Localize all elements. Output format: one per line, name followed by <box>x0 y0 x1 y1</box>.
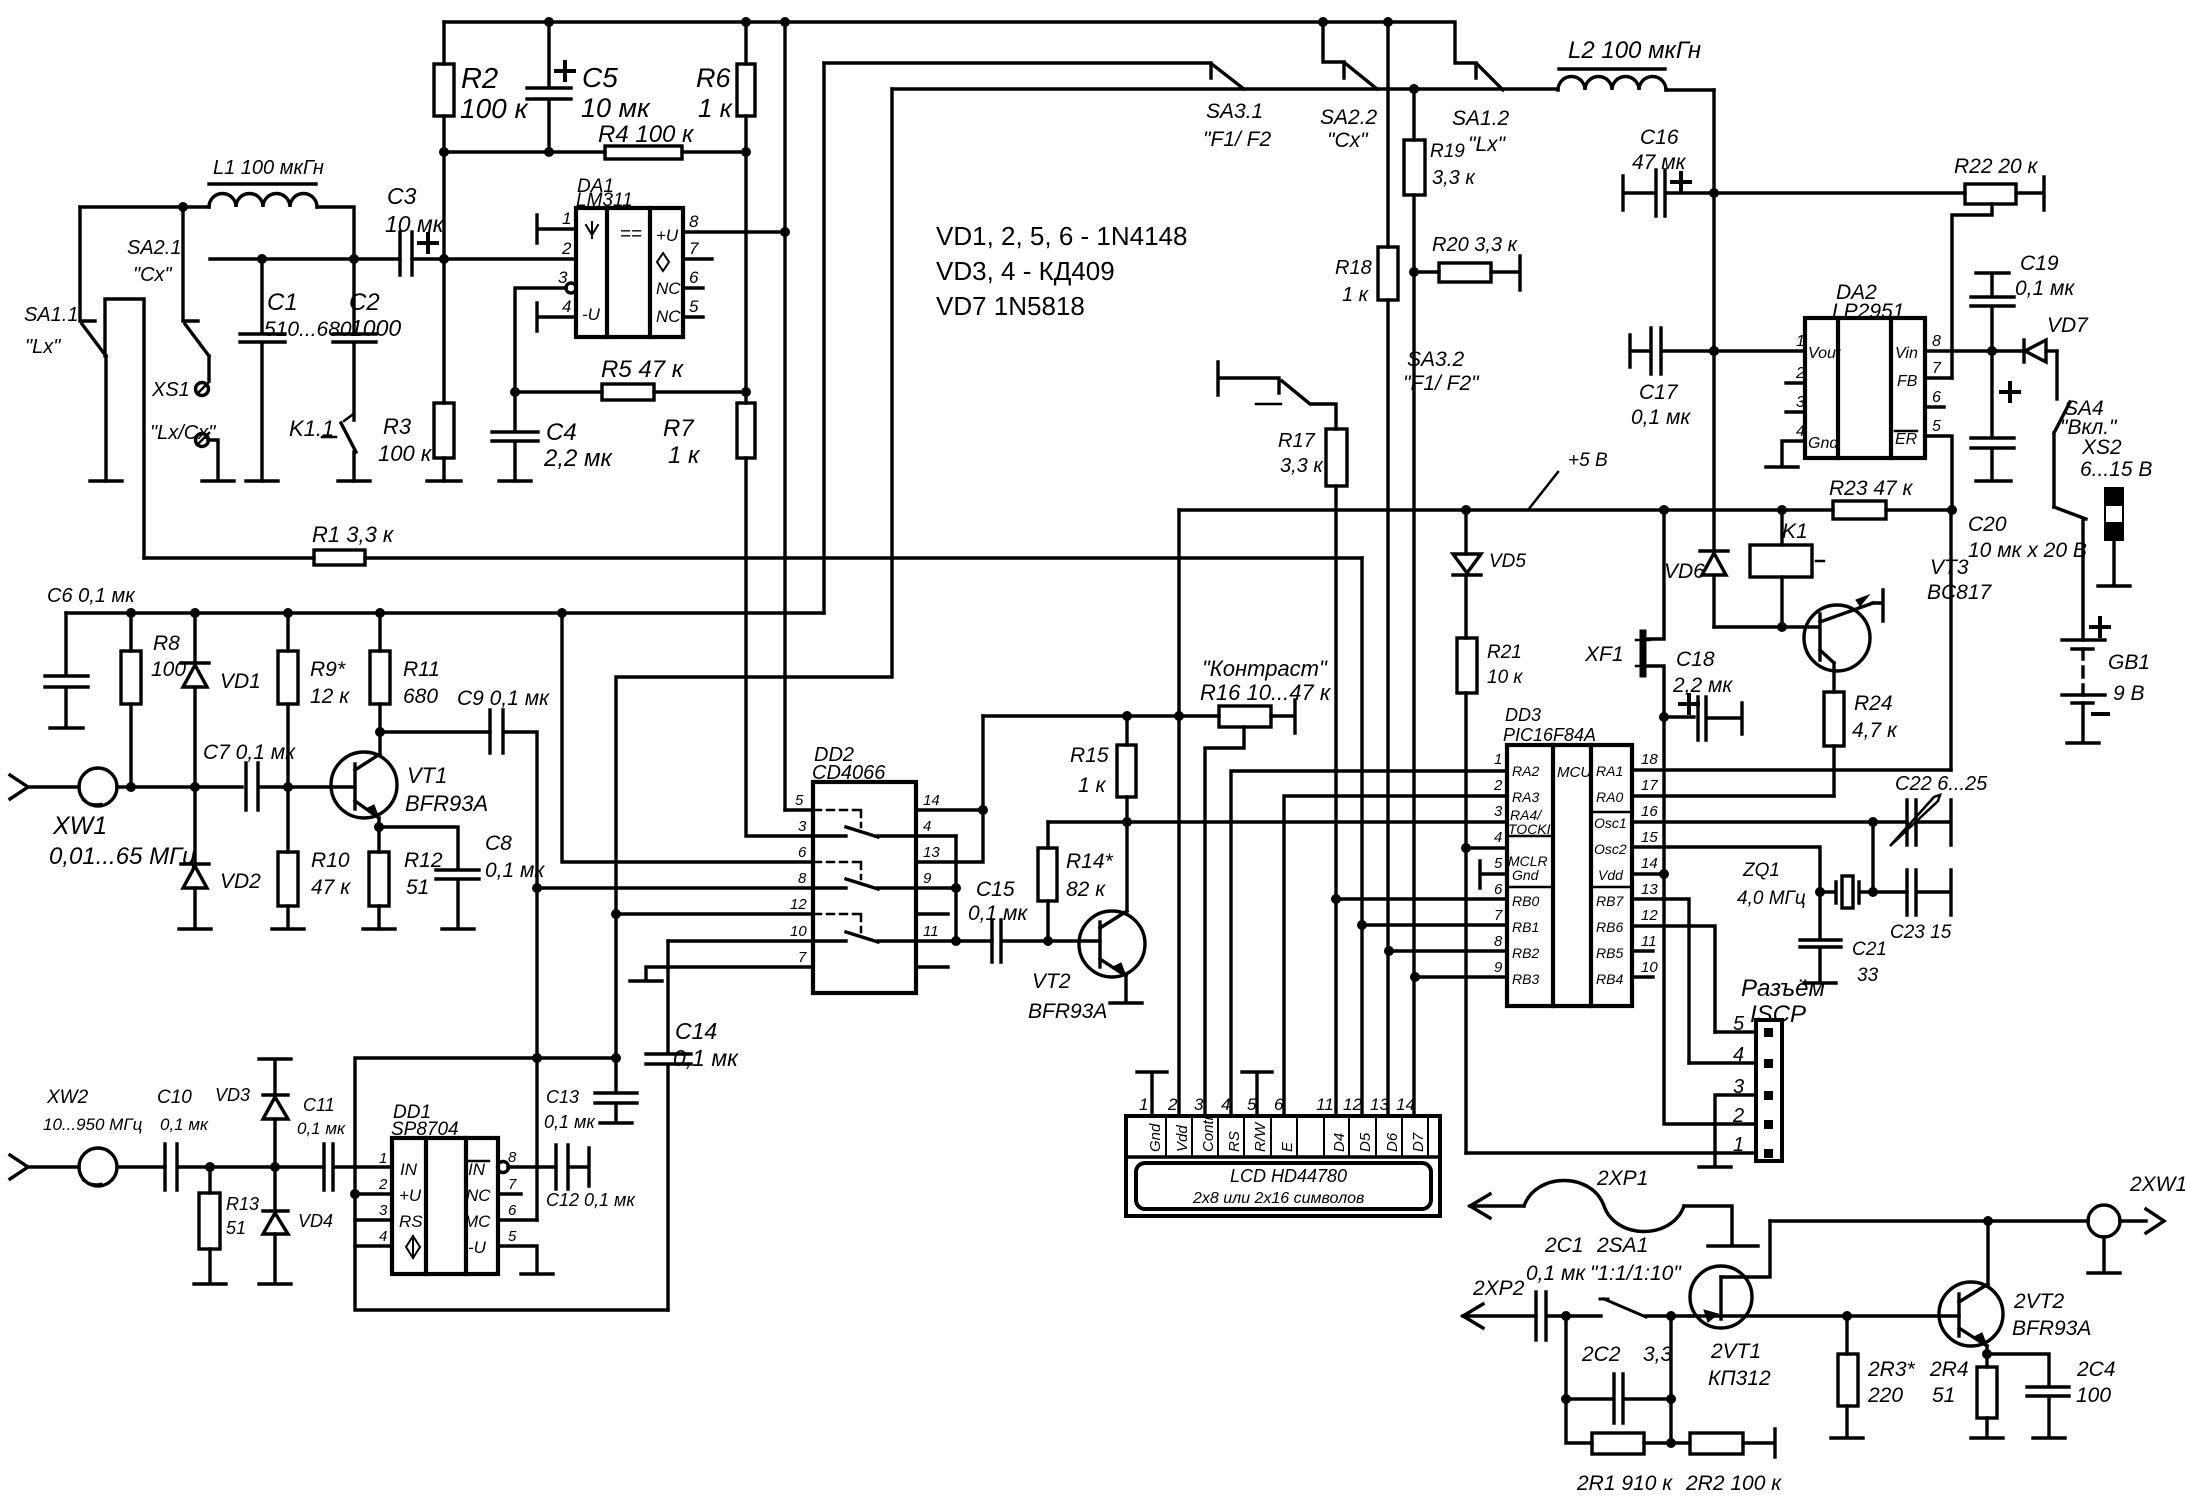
svg-text:C11: C11 <box>303 1095 335 1115</box>
svg-text:4: 4 <box>923 818 931 835</box>
wire SA1.2 arm <box>1477 64 1503 90</box>
svg-text:6: 6 <box>689 268 699 287</box>
svg-text:E: E <box>1279 1141 1296 1152</box>
svg-text:1: 1 <box>1494 751 1502 768</box>
svg-text:SA1.2: SA1.2 <box>1452 107 1510 130</box>
svg-text:0,1 мк: 0,1 мк <box>2015 277 2075 300</box>
capacitor C19 <box>1971 273 2014 351</box>
svg-text:0,1 мк: 0,1 мк <box>1526 1262 1586 1285</box>
inductor L2 <box>1559 67 1665 70</box>
svg-text:12: 12 <box>790 896 807 913</box>
svg-text:VD4: VD4 <box>298 1211 333 1231</box>
resistor R5 <box>515 390 746 393</box>
svg-text:C2: C2 <box>349 289 380 316</box>
svg-text:9: 9 <box>923 870 932 887</box>
battery GB1 <box>2081 521 2084 640</box>
svg-text:VD7 1N5818: VD7 1N5818 <box>936 291 1085 321</box>
svg-text:3: 3 <box>1733 1076 1744 1098</box>
svg-text:6: 6 <box>1932 389 1941 406</box>
svg-text:SA2.2: SA2.2 <box>1320 106 1378 129</box>
wire R7 down to DD2 pin3 <box>746 458 813 836</box>
wire top supply bus <box>444 22 1476 78</box>
svg-text:R17: R17 <box>1278 430 1316 452</box>
svg-text:"Контраст": "Контраст" <box>1202 656 1328 681</box>
pin 7 DD2 <box>630 967 813 981</box>
switch SA2.2 <box>1323 22 1344 78</box>
svg-text:SA3.1: SA3.1 <box>1206 100 1263 123</box>
svg-text:C18: C18 <box>1676 648 1715 671</box>
svg-text:47 мк: 47 мк <box>1632 151 1687 174</box>
MCU DD3 PIC16F84A <box>1507 745 1632 1006</box>
svg-text:RS: RS <box>399 1212 423 1231</box>
svg-text:C1: C1 <box>267 289 298 316</box>
svg-text:C10: C10 <box>157 1087 192 1108</box>
pin 1 DA1 <box>537 215 576 243</box>
node R4 junctions <box>439 147 751 157</box>
DD2 internal switch 2 <box>814 862 861 879</box>
switch SA2.1 <box>183 207 198 321</box>
switch SA3.1 <box>1213 65 1244 89</box>
svg-text:"Lx": "Lx" <box>1468 133 1507 156</box>
wire R19 node down to LCD D7 <box>1412 272 1415 1116</box>
svg-text:3: 3 <box>1494 803 1503 820</box>
resistor R12 <box>377 827 380 929</box>
svg-text:CD4066: CD4066 <box>812 762 886 784</box>
svg-text:10 мк x 20 В: 10 мк x 20 В <box>1968 539 2087 562</box>
wire C18 node to Vdd <box>1662 717 1665 874</box>
svg-text:VD6: VD6 <box>1664 560 1705 583</box>
svg-text:5: 5 <box>1494 855 1503 872</box>
wire unregulated rail L2 down <box>1712 90 1715 551</box>
switch SA4 <box>2055 351 2058 399</box>
svg-text:VD5: VD5 <box>1489 551 1526 572</box>
svg-text:Contr: Contr <box>1200 1114 1217 1152</box>
wire RA3 line E <box>1284 796 1507 1116</box>
LCD pin names rotated <box>1147 1114 1427 1152</box>
capacitor C5 <box>527 22 571 152</box>
wire R2 bottom to C3 node <box>442 152 445 259</box>
svg-text:5: 5 <box>689 297 699 316</box>
pin 5 DD2 <box>785 808 813 811</box>
svg-text:2C1: 2C1 <box>1544 1234 1584 1257</box>
svg-text:R14*: R14* <box>1066 850 1114 873</box>
svg-text:2XW1: 2XW1 <box>2129 1173 2185 1196</box>
capacitor 2C2 <box>1566 1316 1671 1423</box>
svg-text:LP2951: LP2951 <box>1832 300 1904 323</box>
switch 2SA1 <box>1600 1299 1646 1317</box>
wire RB2 line D6 <box>1389 949 1507 952</box>
svg-text:3: 3 <box>1194 1095 1204 1114</box>
svg-text:SA2.1: SA2.1 <box>127 237 181 259</box>
wire LCD Vdd vertical <box>1177 510 1180 1116</box>
connector 2XW1 <box>2088 1205 2120 1237</box>
svg-text:C15: C15 <box>976 878 1015 901</box>
svg-text:C19: C19 <box>2020 252 2059 275</box>
resistor R9 <box>286 613 289 787</box>
resistor R20 <box>1414 256 1520 290</box>
connector XS2 <box>2105 488 2123 505</box>
pin 8 DD1 <box>498 1162 509 1173</box>
pin 13 DD2 <box>916 716 983 862</box>
svg-text:1: 1 <box>562 209 571 228</box>
svg-text:10...950 МГц: 10...950 МГц <box>43 1115 143 1134</box>
svg-text:R18: R18 <box>1335 257 1372 279</box>
svg-text:2SA1: 2SA1 <box>1596 1234 1648 1257</box>
ground R3 <box>427 479 461 482</box>
svg-text:R23 47 к: R23 47 к <box>1829 477 1914 500</box>
svg-text:D4: D4 <box>1331 1133 1348 1152</box>
pin 6 DA1 <box>683 286 703 289</box>
svg-text:1: 1 <box>1733 1134 1744 1156</box>
capacitor 2C1 <box>1536 1292 1601 1340</box>
pin 14 DD2 <box>916 808 983 811</box>
svg-text:R/W: R/W <box>1252 1121 1269 1152</box>
svg-text:DD3: DD3 <box>1505 705 1541 725</box>
svg-text:PIC16F84A: PIC16F84A <box>1503 725 1596 745</box>
resistor 2R4 <box>1971 1354 2003 1438</box>
svg-text:Osc1: Osc1 <box>1594 815 1627 831</box>
pin 16 DD3 Osc1 <box>1632 820 1907 823</box>
fuse XF1 <box>1646 510 1664 717</box>
svg-text:8: 8 <box>508 1149 517 1166</box>
svg-text:FB: FB <box>1897 373 1918 390</box>
svg-text:R8: R8 <box>153 632 180 655</box>
pin 7 DD1 <box>498 1192 521 1195</box>
svg-text:4: 4 <box>1733 1044 1744 1066</box>
pin 10 DD3 RB4 <box>1632 975 1653 978</box>
svg-text:ZQ1: ZQ1 <box>1742 860 1780 881</box>
svg-text:2,2 мк: 2,2 мк <box>543 445 613 472</box>
pin 8 DA1 <box>683 230 785 233</box>
pin 5 DA1 <box>683 315 703 318</box>
svg-text:0,1 мк: 0,1 мк <box>544 1112 596 1132</box>
svg-text:-U: -U <box>468 1238 487 1257</box>
svg-text:12: 12 <box>1343 1095 1362 1114</box>
capacitor C1 <box>240 259 285 481</box>
pin 7 DA1 <box>683 257 712 260</box>
pin 5 DD3 Gnd <box>1480 861 1507 888</box>
svg-text:2: 2 <box>1795 365 1805 382</box>
svg-text:GB1: GB1 <box>2108 651 2150 674</box>
connector 2XP2 <box>1463 1304 1483 1328</box>
svg-text:5: 5 <box>795 792 804 809</box>
svg-text:+5 В: +5 В <box>1568 450 1608 471</box>
pin 4 DA1 <box>537 303 576 331</box>
resistor R3 <box>442 259 445 481</box>
node VT1 collector junction <box>375 727 385 737</box>
switch SA1.1 <box>80 207 95 321</box>
svg-text:C12 0,1 мк: C12 0,1 мк <box>546 1190 636 1210</box>
wire RB0 line D4 <box>1336 897 1507 900</box>
svg-text:33: 33 <box>1857 965 1879 986</box>
wire RA4 line <box>1048 820 1507 823</box>
capacitor C6 <box>45 613 88 728</box>
svg-text:15: 15 <box>1641 829 1658 846</box>
svg-text:Osc2: Osc2 <box>1594 841 1627 857</box>
svg-text:0,1 мк: 0,1 мк <box>968 902 1028 925</box>
pin 13 DD3 RB7 <box>1632 899 1689 1063</box>
pin 7 DA2 FB <box>1925 376 1952 379</box>
svg-text:R15: R15 <box>1070 744 1109 767</box>
svg-text:C9 0,1 мк: C9 0,1 мк <box>457 687 550 710</box>
svg-text:VD2: VD2 <box>220 870 261 893</box>
pin 6 DA2 <box>1925 405 1944 408</box>
capacitor C15 <box>992 920 1100 962</box>
transistor VT3 BC817 <box>1804 605 1870 671</box>
jack XS1 <box>196 383 209 396</box>
svg-text:L2 100 мкГн: L2 100 мкГн <box>1568 37 1701 64</box>
svg-text:2R2 100 к: 2R2 100 к <box>1685 1472 1782 1495</box>
svg-text:"Lx/Cx": "Lx/Cx" <box>150 422 216 444</box>
svg-text:0,1 мк: 0,1 мк <box>160 1115 209 1134</box>
switch SA3.2 <box>1218 362 1279 395</box>
pin 3 DA1 <box>566 283 576 293</box>
wire 2SA1 node down to divider <box>1669 1316 1672 1443</box>
capacitor C18 <box>1664 697 1742 740</box>
svg-text:2: 2 <box>378 1176 388 1193</box>
svg-text:10 к: 10 к <box>1487 667 1523 688</box>
svg-text:1: 1 <box>379 1150 387 1167</box>
wire L1 right down to tank line <box>317 207 354 334</box>
relay coil K1 <box>1780 510 1783 545</box>
svg-text:7: 7 <box>798 949 807 966</box>
svg-text:3,3: 3,3 <box>1643 1343 1673 1366</box>
svg-text:10 мк: 10 мк <box>581 93 651 123</box>
svg-text:SP8704: SP8704 <box>391 1119 459 1140</box>
svg-text:100 к: 100 к <box>378 441 433 466</box>
svg-text:0,1 мк: 0,1 мк <box>673 1045 739 1071</box>
svg-text:BFR93A: BFR93A <box>1028 1000 1107 1023</box>
pin 6 DD1 <box>498 1218 537 1221</box>
resistor R6 <box>744 22 747 152</box>
svg-text:0,1 мк: 0,1 мк <box>1631 406 1691 429</box>
resistor R4 <box>444 150 746 153</box>
pin 3 ISCP <box>1699 1095 1756 1167</box>
svg-text:R20 3,3 к: R20 3,3 к <box>1432 234 1519 256</box>
svg-text:2: 2 <box>1493 777 1503 794</box>
svg-text:+U: +U <box>656 226 679 245</box>
svg-text:1000: 1000 <box>350 315 401 341</box>
svg-text:4: 4 <box>379 1228 387 1245</box>
connector 2XP1 <box>1470 1194 1490 1218</box>
quartz ZQ1 <box>1820 882 1907 903</box>
svg-text:17: 17 <box>1641 777 1658 794</box>
pin 15 DD3 Osc2 <box>1632 847 1820 892</box>
svg-text:12 к: 12 к <box>310 685 350 708</box>
svg-text:1: 1 <box>1796 333 1805 350</box>
svg-text:"1:1/1:10": "1:1/1:10" <box>1590 1262 1682 1285</box>
svg-text:BFR93A: BFR93A <box>405 791 488 816</box>
svg-text:3: 3 <box>379 1202 388 1219</box>
svg-text:C23 15: C23 15 <box>1890 922 1952 943</box>
pin 3 DD1 <box>355 1218 392 1221</box>
svg-text:5: 5 <box>1733 1013 1745 1035</box>
svg-text:8: 8 <box>1932 333 1941 350</box>
svg-text:Gnd: Gnd <box>1808 435 1839 452</box>
resistor R21 <box>1457 638 1477 693</box>
svg-text:C14: C14 <box>675 1018 717 1044</box>
svg-text:7: 7 <box>689 239 699 258</box>
capacitor C4 <box>492 392 538 481</box>
pin 10 DD2 <box>668 939 813 942</box>
svg-text:Vdd: Vdd <box>1174 1125 1191 1152</box>
DD2 right stubs <box>916 914 948 967</box>
wire R22 tap to FB <box>1952 204 1992 378</box>
resistor R2 <box>442 22 445 152</box>
svg-text:R1 3,3 к: R1 3,3 к <box>312 522 395 547</box>
svg-text:47 к: 47 к <box>311 876 351 899</box>
wire Osc1 to crystal node <box>1871 822 1874 892</box>
svg-text:VD3, 4 - КД409: VD3, 4 - КД409 <box>936 256 1115 286</box>
wire VD6 K1 to VT3 base <box>1714 625 1819 628</box>
svg-text:2R4: 2R4 <box>1929 1358 1969 1381</box>
svg-text:9 В: 9 В <box>2113 682 2145 705</box>
svg-text:NC: NC <box>466 1186 491 1205</box>
svg-text:4: 4 <box>1221 1095 1230 1114</box>
resistor R17 <box>1326 429 1347 486</box>
svg-text:82 к: 82 к <box>1066 878 1106 901</box>
svg-text:C7 0,1 мк: C7 0,1 мк <box>203 741 296 764</box>
resistor R11 <box>378 613 381 732</box>
svg-text:2C4: 2C4 <box>2076 1358 2116 1381</box>
transistor 2VT2 BFR93A <box>1939 1282 2003 1346</box>
svg-text:6...15 В: 6...15 В <box>2080 458 2152 481</box>
svg-text:10: 10 <box>1641 959 1658 976</box>
svg-text:Gnd: Gnd <box>1147 1123 1164 1152</box>
svg-text:14: 14 <box>923 792 940 809</box>
svg-text:9: 9 <box>1494 959 1503 976</box>
connector ISCP box <box>1756 1020 1782 1161</box>
connector XW2 <box>10 1155 28 1179</box>
svg-text:R5 47 к: R5 47 к <box>601 356 685 383</box>
svg-text:IN: IN <box>400 1160 418 1179</box>
node input line junctions <box>126 782 293 792</box>
svg-text:1 к: 1 к <box>698 93 734 123</box>
svg-text:0,1 мк: 0,1 мк <box>485 859 545 882</box>
wire +5V rail <box>1179 508 1952 511</box>
svg-text:IN: IN <box>468 1160 486 1179</box>
svg-text:2,2 мк: 2,2 мк <box>1672 674 1733 697</box>
svg-text:7: 7 <box>1494 907 1503 924</box>
svg-text:R11: R11 <box>403 658 440 681</box>
wire R15 R16 top line <box>983 714 1219 717</box>
svg-text:5: 5 <box>1932 418 1941 435</box>
svg-text:"Cx": "Cx" <box>1327 129 1369 152</box>
svg-text:VD1, 2, 5, 6 - 1N4148: VD1, 2, 5, 6 - 1N4148 <box>936 221 1187 251</box>
pin 17 DD3 RA0 <box>1632 794 1834 797</box>
resistor R22 <box>1714 177 2044 210</box>
svg-text:-U: -U <box>582 305 601 324</box>
LCD module HD44780 <box>1126 1116 1440 1216</box>
wire tank line C1 C2 C3 <box>210 257 576 260</box>
svg-text:SA1.1: SA1.1 <box>24 304 78 326</box>
svg-text:RA0: RA0 <box>1596 789 1623 805</box>
svg-text:1 к: 1 к <box>668 442 701 469</box>
pin 4 DD3 MCLR <box>1466 846 1507 849</box>
diode VD2 <box>181 787 209 864</box>
wire C9 chain down to DD1 pin6 <box>535 888 538 1220</box>
wire R1 node line <box>105 299 144 558</box>
svg-text:4,0 МГц: 4,0 МГц <box>1737 888 1806 909</box>
capacitor C23 <box>1907 870 1951 915</box>
svg-text:10: 10 <box>790 923 807 940</box>
pin 1 ISCP <box>1466 1151 1756 1154</box>
svg-text:10 мк: 10 мк <box>385 211 445 237</box>
svg-text:14: 14 <box>1396 1095 1415 1114</box>
svg-text:RB4: RB4 <box>1596 971 1623 987</box>
op-amp DA1 LM311 <box>576 208 683 337</box>
pin 6 DD2 <box>562 613 813 862</box>
resistor R19 <box>1412 89 1415 272</box>
svg-text:51: 51 <box>1932 1384 1955 1407</box>
svg-text:1: 1 <box>1139 1095 1148 1114</box>
svg-text:D6: D6 <box>1384 1132 1401 1152</box>
svg-text:8: 8 <box>798 870 807 887</box>
DD2 internal switch 1 <box>814 810 861 827</box>
svg-text:13: 13 <box>923 844 940 861</box>
svg-text:C8: C8 <box>485 832 512 855</box>
svg-text:"Lx": "Lx" <box>25 336 61 358</box>
transistor 2VT1 KP312 <box>1690 1266 1752 1328</box>
resistor R1 <box>144 556 1362 559</box>
svg-text:XF1: XF1 <box>1584 643 1624 666</box>
svg-text:BC817: BC817 <box>1927 581 1993 604</box>
pin 9 DD2 <box>916 836 956 941</box>
pin 5 ISCP <box>1715 1030 1756 1033</box>
wire R6 to R7 vertical <box>744 152 747 403</box>
svg-text:13: 13 <box>1641 881 1658 898</box>
wire line-B down to DD2 pin12 chain <box>616 89 892 914</box>
svg-text:VD1: VD1 <box>220 670 261 693</box>
svg-text:100 к: 100 к <box>460 93 529 124</box>
svg-text:RB6: RB6 <box>1596 919 1623 935</box>
resistor 2R2 <box>1743 1429 1775 1457</box>
wire RA2 line RS <box>1231 771 1507 1116</box>
pin 5 DA2 ER <box>1925 436 1952 510</box>
capacitor C12 <box>556 1145 589 1189</box>
svg-text:R24: R24 <box>1854 692 1893 715</box>
voltage regulator DA2 LP2951 <box>1805 318 1925 458</box>
svg-text:BFR93A: BFR93A <box>2012 1317 2091 1340</box>
svg-text:8: 8 <box>1494 933 1503 950</box>
svg-text:C17: C17 <box>1639 381 1679 404</box>
resistor R24 <box>1824 692 1844 746</box>
svg-text:R3: R3 <box>383 414 412 439</box>
svg-text:Vin: Vin <box>1895 345 1918 362</box>
svg-text:VT1: VT1 <box>407 763 447 788</box>
capacitor C21 <box>1800 892 1841 983</box>
resistor R10 <box>286 787 289 929</box>
svg-text:R13: R13 <box>226 1194 259 1214</box>
resistor R8 <box>129 613 132 787</box>
capacitor C14 <box>646 941 691 1310</box>
pin 11 DD2 <box>916 939 992 942</box>
svg-text:LM311: LM311 <box>576 190 633 211</box>
svg-text:11: 11 <box>923 923 939 940</box>
svg-text:XW1: XW1 <box>52 812 107 840</box>
svg-text:4: 4 <box>1796 423 1805 440</box>
svg-text:D7: D7 <box>1410 1132 1427 1152</box>
svg-text:R4 100 к: R4 100 к <box>598 121 695 148</box>
svg-text:4: 4 <box>1494 829 1502 846</box>
svg-text:R2: R2 <box>461 63 498 95</box>
svg-text:16: 16 <box>1641 803 1658 820</box>
svg-text:6: 6 <box>1274 1095 1284 1114</box>
pin 8 DA2 Vin <box>1925 349 2024 352</box>
capacitor C17 <box>1630 328 1805 374</box>
svg-text:SA3.2: SA3.2 <box>1407 348 1465 371</box>
ground C4 <box>499 479 531 482</box>
